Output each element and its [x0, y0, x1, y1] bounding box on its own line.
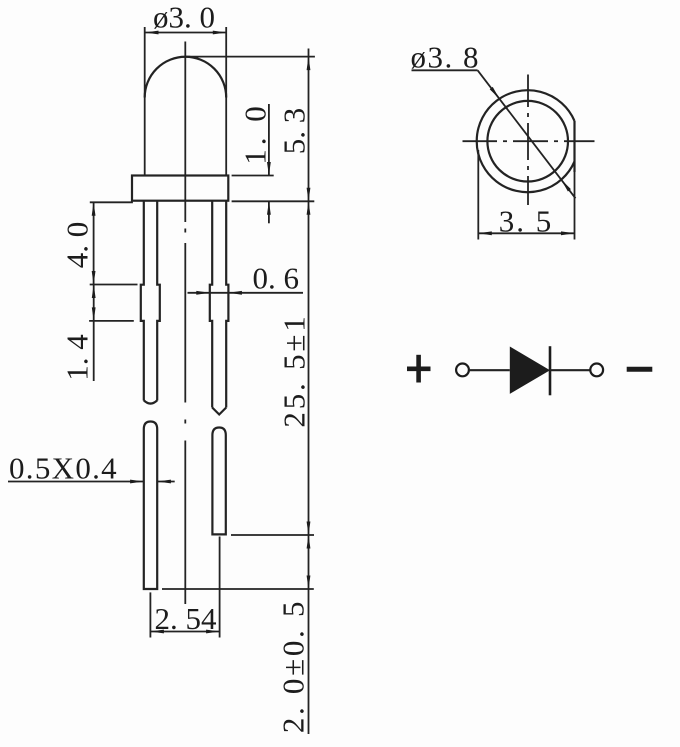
anode wire [469, 369, 510, 371]
svg-text:5. 3: 5. 3 [277, 108, 312, 155]
right lead lower segment [212, 428, 225, 535]
right lead (cathode, short) upper segment with crimp [210, 201, 212, 408]
crimp bottom extension line [89, 320, 134, 322]
flange [132, 176, 228, 201]
extension line left (body left side) [144, 27, 146, 176]
break curve left lead [144, 400, 157, 403]
cathode terminal circle [590, 364, 603, 377]
short lead bottom extension line [231, 534, 314, 536]
outer circle with right flat [477, 90, 575, 192]
LED dome arc [145, 57, 227, 98]
minus sign [627, 367, 653, 372]
left lead (anode, long) upper segment with crimp [141, 201, 144, 401]
svg-text:2. 0±0. 5: 2. 0±0. 5 [276, 599, 311, 733]
break curve right lead [212, 408, 226, 415]
svg-text:0. 6: 0. 6 [252, 261, 299, 296]
top view centerline horizontal [463, 140, 595, 142]
anode terminal circle [456, 364, 469, 377]
dimension line ∅3.0 [145, 32, 226, 34]
top view centerline vertical [527, 75, 529, 206]
flange bottom extension line left [90, 201, 133, 203]
right dimension line stack (5.3 / 25.5 / 2.0) [308, 49, 310, 735]
plus sign [407, 366, 431, 371]
svg-text:ø3. 8: ø3. 8 [411, 40, 481, 75]
line from dome top to 5.3 dimension [186, 56, 315, 58]
long lead bottom extension line [162, 588, 314, 590]
svg-text:1. 4: 1. 4 [60, 334, 95, 381]
extension line right (body right side) [225, 27, 227, 176]
crimp top extension line [90, 284, 138, 286]
left lead lower segment [144, 422, 157, 590]
flat edge + extension line for 3.5 [573, 121, 575, 172]
cathode wire [550, 369, 590, 371]
centerline (front view vertical axis) [184, 42, 186, 605]
cathode bar [549, 346, 552, 395]
inner circle [487, 101, 568, 182]
svg-text:ø3. 0: ø3. 0 [153, 0, 215, 35]
svg-text:1. 0: 1. 0 [238, 102, 273, 165]
diode triangle [510, 347, 550, 394]
flange top extension line right [232, 175, 274, 177]
svg-text:0.5X0.4: 0.5X0.4 [9, 451, 118, 486]
svg-text:25. 5±1: 25. 5±1 [277, 313, 312, 427]
svg-text:4. 0: 4. 0 [60, 222, 95, 269]
flange bottom extension line right [232, 200, 315, 202]
